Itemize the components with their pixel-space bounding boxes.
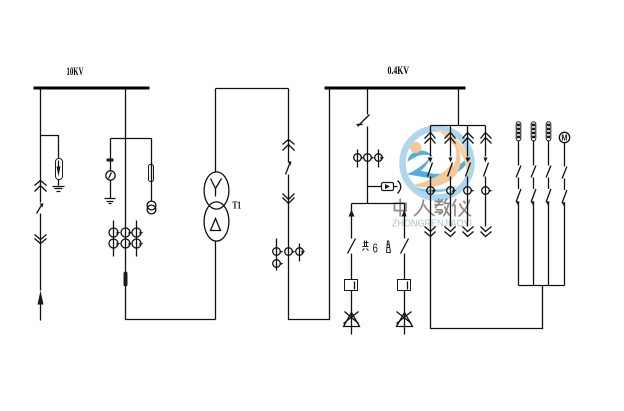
watermark CJK text 中人教仪 (vector strokes) — [395, 199, 472, 217]
capacitor branch right — [401, 204, 409, 335]
feeder 2 — [445, 126, 457, 237]
motor branch 2 — [531, 122, 536, 286]
CT stub right LV — [299, 244, 301, 262]
svg-text:0.4KV: 0.4KV — [388, 63, 410, 77]
svg-text:T1: T1 — [233, 201, 242, 212]
CT stub left metering — [357, 150, 359, 168]
watermark blue 2 head crescent — [408, 151, 433, 162]
capacitor delta symbol right — [397, 312, 413, 327]
watermark orange dot — [410, 142, 421, 153]
feeder 4 — [481, 126, 493, 237]
wire: arrester tee — [41, 136, 59, 186]
surge arrester F1 — [56, 159, 63, 180]
breaker switch LV — [286, 162, 292, 175]
wire: incoming feeder line — [40, 90, 42, 321]
transformer T1 — [204, 89, 229, 320]
fuse link bar — [107, 159, 114, 162]
motor branch 4 with motor M — [559, 132, 569, 285]
wire: feeder group drop — [458, 90, 460, 126]
fuse — [149, 165, 154, 183]
10KV busbar — [34, 87, 150, 90]
svg-text:10KV: 10KV — [67, 64, 84, 78]
wire: PT left stub — [110, 139, 112, 199]
motor branch 1 — [516, 122, 521, 286]
feeder 1 — [425, 126, 543, 329]
svg-text:6: 6 — [373, 241, 378, 256]
wire: PT tee — [111, 138, 152, 140]
watermark orange ribbon tail — [412, 137, 461, 188]
wire: transformer LV riser — [289, 89, 330, 320]
capacitor delta symbol left — [344, 312, 360, 327]
CT stub right metering — [378, 150, 380, 168]
plug and socket stub — [368, 181, 401, 194]
ground — [105, 199, 116, 204]
capacitor branch left — [348, 204, 356, 335]
watermark blue bottom wave — [417, 186, 458, 193]
current transformers LV — [273, 248, 304, 268]
watermark blue 2 neck stroke — [411, 158, 430, 174]
motor branch 3 — [546, 122, 551, 286]
current transformers 3x2 — [109, 228, 141, 248]
drawout contact chevrons up LV — [283, 140, 295, 151]
current transformers metering — [354, 154, 383, 162]
CT stub left — [113, 221, 115, 257]
disconnector switch metering — [357, 115, 370, 127]
switch box right — [398, 280, 411, 291]
wire: metering riser — [352, 90, 405, 204]
wire: PT right stub — [151, 139, 153, 202]
feeder bracket — [431, 125, 486, 127]
watermark blue 2 base wave — [408, 159, 471, 179]
wire: transformer top link — [216, 88, 289, 90]
drawout contact chevrons down LV — [283, 194, 295, 204]
drawout contact (chevrons down) incoming — [35, 235, 47, 244]
label 共6组 (vector strokes) — [363, 241, 391, 253]
watermark orange tail leg — [412, 163, 455, 186]
ground — [53, 187, 65, 192]
CT stub right — [136, 221, 138, 257]
switch box left — [345, 280, 358, 291]
breaker switch incoming — [37, 204, 44, 214]
wire: transformer 10kV branch — [126, 90, 216, 320]
cable arrow incoming — [38, 291, 44, 305]
watermark orange ribbon — [435, 128, 470, 178]
discharge device circle — [106, 171, 115, 180]
watermark logo ring — [403, 129, 472, 198]
0.4KV busbar — [325, 87, 466, 90]
svg-text:M: M — [561, 134, 568, 143]
motor group bus — [519, 285, 565, 287]
voltage transformer (double circle) — [147, 201, 156, 214]
CT stub left LV — [276, 239, 278, 271]
feeder 3 — [463, 126, 475, 237]
series reactor (dark capsule) — [124, 272, 128, 287]
drawout contact (chevrons up) incoming — [35, 181, 47, 192]
